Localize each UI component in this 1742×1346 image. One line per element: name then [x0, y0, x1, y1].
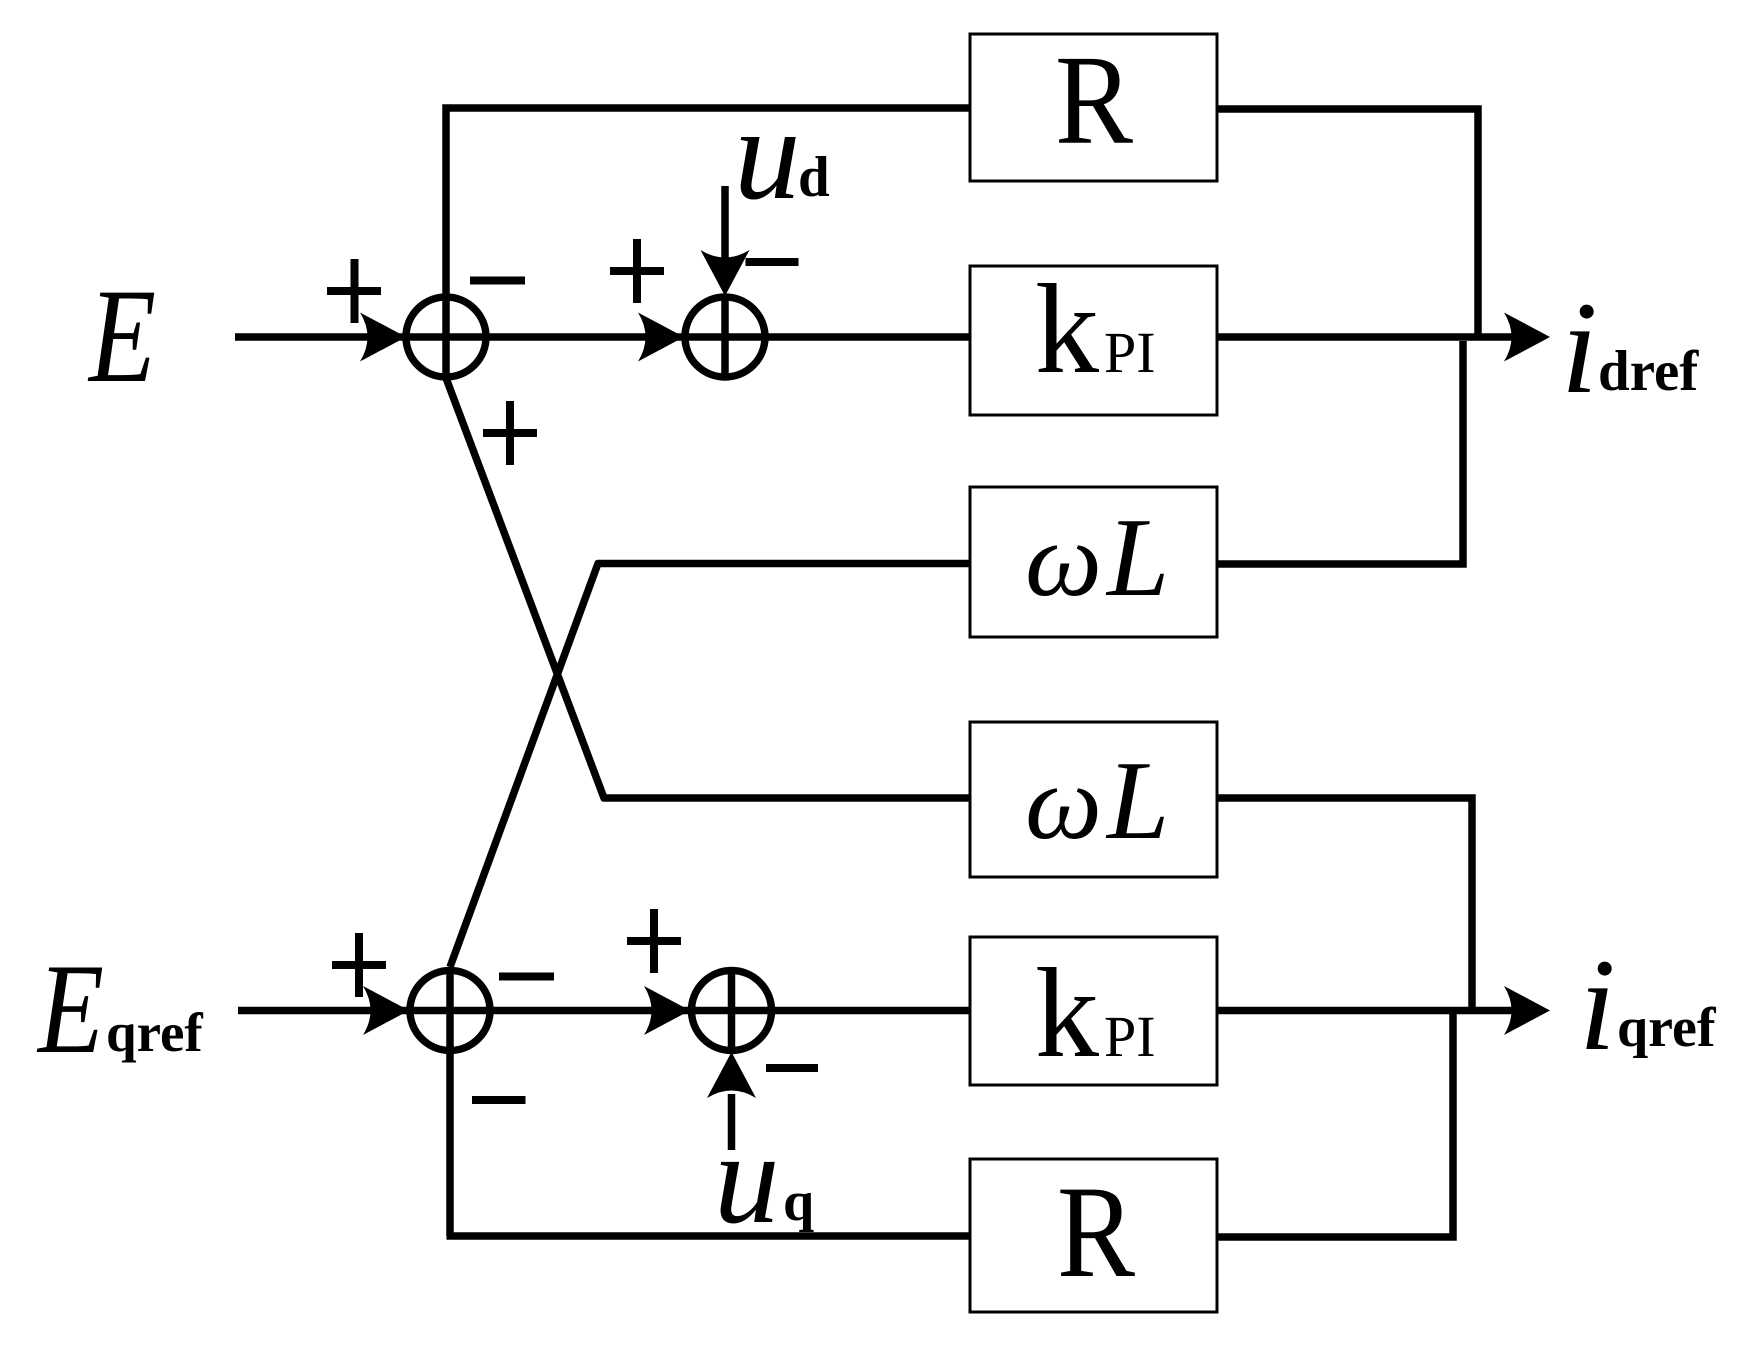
wire: top feedback from node after S1 up and right to block R1 input — [446, 108, 970, 380]
sign - at S3 top right — [499, 973, 554, 981]
sign + at diagonal A — [483, 401, 537, 465]
wire: omega-L2 output right then down to i_qref line — [1217, 798, 1472, 1011]
sign + at S2 input — [610, 239, 664, 303]
block R1 (resistance R, top) — [970, 29, 1217, 181]
sign - at S2 right of u_d — [746, 258, 799, 266]
label i_dref — [1561, 274, 1699, 421]
wire: from S1 bottom down diagonal A then right into omega-L2 input — [446, 378, 970, 798]
svg-text:k: k — [1035, 942, 1099, 1084]
summing junction S1 — [406, 297, 486, 377]
arrowhead: output i_qref — [1504, 986, 1550, 1035]
block omega-L1 (cross-coupling, upper) — [970, 487, 1217, 637]
svg-text:i: i — [1561, 274, 1598, 421]
sign + at S1 input — [327, 259, 381, 323]
svg-text:R: R — [1055, 29, 1134, 171]
svg-text:u: u — [714, 1106, 780, 1251]
wire: omega-L1 output right then up to i_dref line — [1217, 341, 1463, 564]
svg-text:i: i — [1579, 931, 1616, 1078]
arrowhead: u_q up into S4 — [707, 1052, 756, 1098]
wire: kPI1 output to i_dref arrow — [1217, 333, 1512, 341]
label u_d — [734, 79, 830, 227]
sign - at S1 top right — [470, 277, 525, 285]
wire: bottom feedback horizontal to block R2 — [447, 1232, 971, 1240]
svg-text:dref: dref — [1598, 340, 1699, 403]
wire: R1 output right then down to i_dref line — [1217, 109, 1478, 340]
svg-text:L: L — [1105, 496, 1169, 620]
svg-text:qref: qref — [106, 1002, 203, 1063]
arrowhead: output i_dref — [1504, 313, 1550, 362]
svg-text:PI: PI — [1104, 320, 1156, 385]
wire: top main row from E input through S1 and S2 to block kPI1 — [235, 333, 970, 341]
block omega-L2 (cross-coupling, lower) — [970, 722, 1217, 877]
svg-text:ω: ω — [1025, 501, 1102, 618]
arrowhead: E_qref input into summing junction S3 — [363, 986, 409, 1035]
block R2 (resistance R, bottom) — [970, 1158, 1217, 1312]
arrowhead: E input into summing junction S1 — [360, 313, 406, 362]
sign - at S3 below — [472, 1096, 526, 1104]
arrowhead: u_d down into S2 — [701, 250, 750, 296]
summing junction S3 — [410, 967, 490, 1236]
sign - at S4 below right — [766, 1064, 818, 1072]
svg-text:k: k — [1035, 258, 1099, 400]
svg-text:qref: qref — [1617, 997, 1717, 1059]
wire: kPI2 output to i_qref arrow — [1217, 1007, 1512, 1015]
svg-text:ω: ω — [1025, 744, 1102, 861]
u_q arrow stem into S4 — [728, 1094, 736, 1150]
label u_q — [714, 1106, 814, 1251]
sign + at S4 input — [627, 909, 681, 973]
label E_qref (input, bottom) — [36, 937, 203, 1080]
block kPI2 (PI gain, bottom) — [970, 937, 1217, 1085]
svg-text:E: E — [36, 937, 104, 1080]
svg-text:E: E — [87, 262, 156, 411]
summing junction S2 — [685, 296, 765, 380]
svg-text:u: u — [734, 79, 801, 227]
u_d arrow stem into S2 — [721, 186, 729, 258]
svg-text:R: R — [1057, 1158, 1135, 1305]
arrowhead: into summing junction S2 — [638, 313, 684, 362]
summing junction S4 — [692, 968, 772, 1052]
svg-text:PI: PI — [1104, 1004, 1156, 1069]
arrowhead: into summing junction S4 — [644, 986, 690, 1035]
wire: R2 output right then up to i_qref line — [1217, 1011, 1453, 1238]
block kPI1 (PI gain, top) — [970, 258, 1217, 415]
label i_qref — [1579, 931, 1717, 1078]
wire: bottom main row from E_qref input through S3 and S4 to kPI2 — [238, 1007, 970, 1015]
label E (input, top) — [87, 262, 156, 411]
sign + at S3 input — [332, 933, 386, 997]
svg-text:q: q — [783, 1171, 814, 1233]
svg-text:L: L — [1105, 739, 1169, 863]
wire: from S3 up diagonal B then right into omega-L1 input — [450, 564, 970, 968]
svg-text:d: d — [798, 146, 830, 209]
